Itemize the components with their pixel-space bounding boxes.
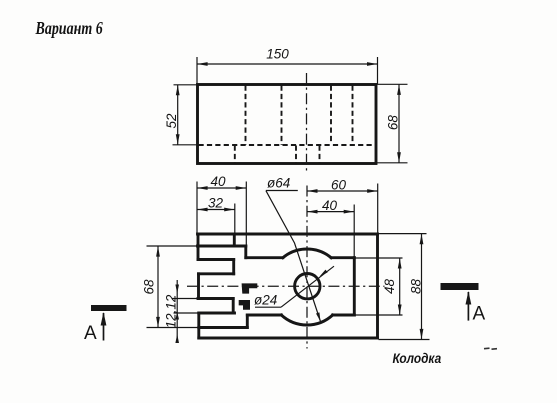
dim 68f line bbox=[398, 85, 400, 163]
dim 12-12 line bbox=[176, 280, 178, 343]
svg-text:12,12: 12,12 bbox=[164, 294, 179, 328]
hidden line v2 bbox=[281, 86, 283, 146]
section arrow right bbox=[467, 292, 469, 321]
dim 150 extension left bbox=[196, 57, 198, 84]
dim 40TL line bbox=[197, 187, 246, 189]
svg-text:52: 52 bbox=[164, 113, 179, 129]
slot1 bottom edge bbox=[199, 272, 234, 275]
hidden line v1 bbox=[245, 86, 247, 146]
leader ø24 line bbox=[281, 266, 334, 307]
dim 68f extension bottom bbox=[377, 162, 408, 164]
plan top edge bbox=[198, 233, 378, 236]
plan left edge seg1 bbox=[197, 234, 200, 260]
black blob 1 bbox=[242, 283, 258, 293]
cavity bottom right segment bbox=[333, 314, 355, 317]
leader ø64 underline bbox=[266, 190, 298, 192]
front view outline bbox=[198, 85, 377, 164]
dim 40TL ext right bbox=[245, 182, 247, 246]
svg-text:32: 32 bbox=[208, 196, 224, 211]
hidden line short v6 bbox=[295, 146, 297, 163]
plan right edge bbox=[376, 234, 379, 338]
step vertical x247.3 bbox=[246, 315, 249, 328]
stray mark bbox=[484, 347, 490, 350]
svg-text:40: 40 bbox=[210, 174, 226, 189]
dim 150 line bbox=[197, 63, 377, 65]
dim 48 line bbox=[399, 258, 401, 315]
hidden line v4 bbox=[352, 86, 354, 143]
plan horizontal centerline bbox=[187, 285, 385, 287]
step vertical x245.8 bbox=[244, 246, 247, 258]
hidden line short v7 bbox=[319, 146, 321, 163]
big circle bottom arc bbox=[281, 315, 332, 325]
plan left edge seg2 bbox=[197, 274, 200, 299]
cavity top right segment bbox=[331, 256, 354, 259]
dim 40TL ext left bbox=[196, 182, 198, 234]
section bar right bbox=[441, 283, 479, 290]
dim 150 extension right bbox=[377, 57, 379, 84]
dim 88 line bbox=[421, 234, 423, 339]
slot2 bottom edge bbox=[199, 312, 235, 315]
dim 40TR line bbox=[307, 211, 354, 213]
dim 68L ext bottom bbox=[147, 327, 199, 329]
svg-text:Колодка: Колодка bbox=[393, 350, 442, 366]
dim 52 extension bottom bbox=[173, 144, 198, 146]
section arrow left bbox=[103, 313, 105, 341]
plan bottom edge bbox=[199, 337, 378, 340]
big circle top arc bbox=[283, 249, 331, 258]
step line y246 bbox=[198, 245, 246, 248]
dim 12-12 ext y313 bbox=[174, 312, 200, 314]
dim 88 ext top bbox=[379, 233, 427, 235]
small circle ø24 bbox=[295, 274, 320, 299]
dim 68L line bbox=[157, 246, 159, 327]
dim 68L ext top bbox=[147, 245, 198, 247]
dim 12-12 arrow b bbox=[175, 312, 179, 320]
cavity top left segment bbox=[246, 256, 283, 259]
leader ø24 underline bbox=[255, 306, 281, 308]
dim 12-12 ext y298.5 bbox=[172, 298, 199, 300]
cavity right edge bbox=[353, 258, 356, 315]
dim 52 line bbox=[177, 85, 179, 145]
plan vertical centerline bbox=[306, 186, 308, 349]
dim 12-12 arrow c bbox=[175, 334, 179, 343]
dim 60 line bbox=[307, 190, 377, 192]
dim 52 extension top bbox=[174, 84, 198, 86]
svg-text:88: 88 bbox=[408, 279, 423, 295]
dim 12-12 arrow a bbox=[175, 285, 179, 294]
step line y327.5 bbox=[199, 326, 248, 329]
svg-text:48: 48 bbox=[382, 279, 397, 295]
slot2 top edge bbox=[198, 297, 233, 300]
hidden line short v5 bbox=[234, 146, 236, 163]
slot1 top edge bbox=[198, 258, 234, 261]
top step vertical x234.3 bbox=[233, 234, 236, 245]
section bar left bbox=[91, 305, 127, 311]
svg-text:60: 60 bbox=[331, 177, 347, 192]
svg-text:A: A bbox=[473, 304, 486, 325]
front centerline bbox=[306, 73, 308, 173]
dim 32 line bbox=[197, 209, 234, 211]
svg-text:ø24: ø24 bbox=[254, 293, 277, 308]
dim 40TR ext right bbox=[353, 205, 355, 258]
dim 48 ext top bbox=[356, 257, 403, 259]
hidden line horizontal bbox=[199, 144, 376, 146]
slot2 end vertical bbox=[232, 299, 235, 311]
dim 48 ext bottom bbox=[356, 314, 403, 316]
slot1 end vertical bbox=[232, 260, 235, 274]
leader ø64 line bbox=[266, 191, 321, 322]
svg-text:A: A bbox=[84, 323, 97, 344]
leader ø24 arrow bbox=[320, 270, 328, 277]
cavity bottom left segment bbox=[247, 314, 281, 317]
svg-text:ø64: ø64 bbox=[267, 176, 290, 191]
plan left edge seg3 bbox=[197, 313, 200, 338]
leader ø64 arrow bbox=[316, 312, 321, 321]
svg-text:150: 150 bbox=[266, 47, 289, 62]
svg-text:68: 68 bbox=[142, 279, 157, 295]
hidden line v3 bbox=[330, 86, 332, 145]
dim 88 ext bottom bbox=[379, 339, 430, 341]
dim 60 ext right bbox=[377, 184, 379, 234]
svg-text:68: 68 bbox=[385, 115, 400, 131]
dim 32 ext right bbox=[234, 204, 236, 235]
dim 68f extension top bbox=[377, 83, 408, 85]
svg-text:40: 40 bbox=[322, 198, 338, 213]
svg-text:Вариант 6: Вариант 6 bbox=[35, 19, 103, 38]
black blob 2 bbox=[239, 300, 250, 310]
